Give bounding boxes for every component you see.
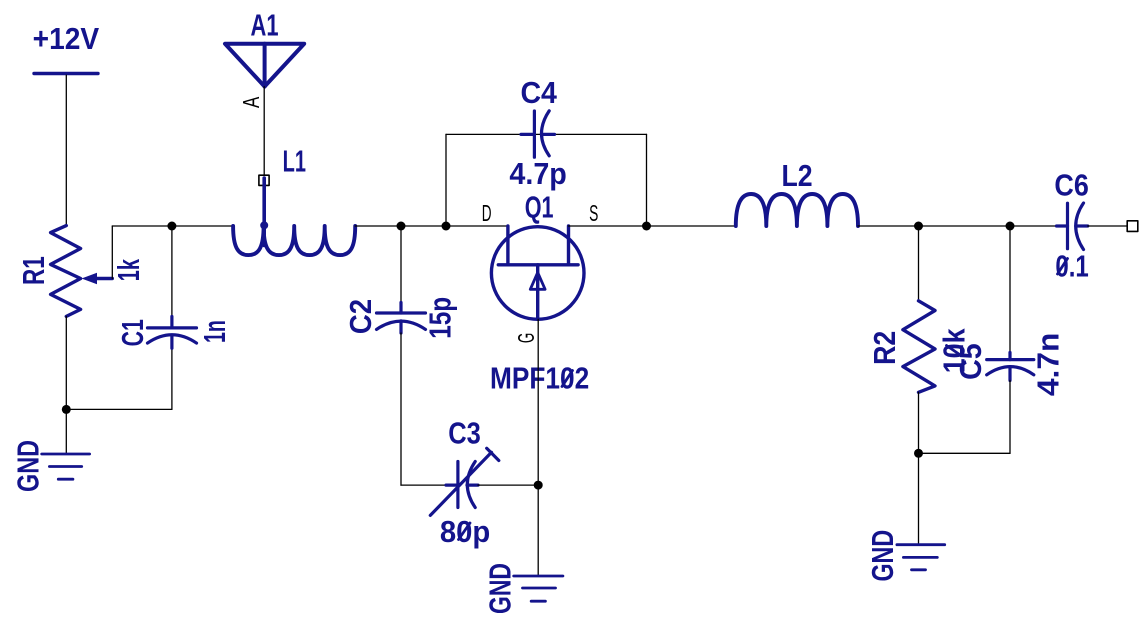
svg-text:A: A: [238, 96, 264, 108]
wire C2 lower: [400, 333, 402, 485]
resistor R1 (potentiometer body): [51, 226, 81, 317]
wire R1 wiper riser: [111, 226, 113, 279]
ground GND left: [42, 454, 90, 479]
capacitor C4: [521, 111, 555, 157]
node R1/C1/GND: [62, 405, 71, 414]
wire C6 to port: [1088, 225, 1128, 227]
svg-text:+12V: +12V: [33, 21, 100, 56]
wire rail right of Q1: [569, 225, 736, 227]
svg-text:C1: C1: [115, 319, 150, 346]
capacitor C5: [987, 353, 1034, 381]
node C3/gate/GND: [534, 481, 543, 490]
svg-text:A1: A1: [251, 8, 279, 43]
transistor Q1: [491, 226, 584, 319]
svg-text:R1: R1: [16, 256, 51, 285]
wire bottom right rail: [919, 452, 1011, 454]
svg-text:R2: R2: [867, 331, 902, 365]
svg-text:D: D: [482, 200, 492, 226]
slash of zero in 0.1: [1058, 259, 1068, 275]
node rail/C5: [1006, 222, 1015, 231]
svg-text:4.7n: 4.7n: [1031, 333, 1066, 397]
capacitor C6: [1057, 203, 1088, 250]
power +12V symbol: [34, 72, 98, 75]
wire GND mid stem: [537, 485, 539, 576]
svg-text:C4: C4: [520, 75, 557, 110]
wire C3 right: [478, 484, 538, 486]
capacitor C2: [377, 303, 426, 334]
svg-text:L2: L2: [781, 158, 812, 193]
wire rail middle: [355, 225, 508, 227]
wire to C3 left: [401, 484, 446, 486]
wire R2 bottom: [918, 392, 920, 453]
wire C5 upper: [1009, 226, 1011, 353]
node rail/C2: [397, 222, 406, 231]
wire R2 top: [918, 226, 920, 301]
wire +12V to R1: [65, 75, 67, 225]
port square output: [1127, 221, 1138, 232]
wire C4 top rail: [446, 133, 647, 135]
wire C5 lower: [1009, 381, 1011, 454]
wire C1 bottom riser: [171, 348, 173, 409]
svg-text:C6: C6: [1054, 167, 1088, 202]
wire R1 bottom: [65, 316, 67, 452]
svg-text:4.7p: 4.7p: [509, 156, 566, 191]
capacitor C1: [148, 317, 197, 349]
node R2/C5/GND: [914, 449, 923, 458]
inductor L1: [233, 226, 355, 255]
variable capacitor C3: [430, 448, 499, 515]
inductor L2: [736, 194, 858, 226]
wire antenna to port: [263, 87, 265, 178]
svg-text:S: S: [589, 200, 598, 226]
svg-text:GND: GND: [865, 530, 900, 582]
slash of zero in MPF102: [562, 371, 573, 387]
wire C4 left riser: [445, 134, 447, 226]
port square at L1 tap: [259, 175, 269, 185]
wire C2 upper: [400, 226, 402, 303]
L1 tap lead: [262, 178, 266, 246]
svg-text:MPF102: MPF102: [490, 361, 589, 396]
svg-text:C2: C2: [343, 299, 378, 334]
svg-text:C5: C5: [953, 343, 988, 380]
wire rail left: [112, 225, 233, 227]
node rail/C4 right: [642, 222, 651, 231]
node L1 tap: [260, 221, 268, 229]
svg-text:0.1: 0.1: [1055, 249, 1088, 284]
svg-text:1n: 1n: [197, 320, 232, 343]
antenna A1: [225, 44, 304, 87]
svg-text:1k: 1k: [111, 259, 146, 282]
ground GND middle: [514, 576, 563, 601]
slash of zero in 10k: [947, 346, 962, 356]
svg-text:C3: C3: [448, 416, 481, 451]
svg-text:L1: L1: [283, 143, 306, 178]
slash of zero in 80p: [459, 523, 471, 540]
wire C4 right riser: [646, 134, 648, 226]
svg-text:15p: 15p: [423, 297, 458, 339]
svg-text:Q1: Q1: [525, 190, 554, 225]
svg-text:G: G: [513, 333, 539, 343]
wire bottom left: [66, 408, 172, 410]
svg-text:GND: GND: [482, 563, 517, 614]
resistor R2: [903, 301, 935, 393]
node rail/C1: [167, 222, 176, 231]
wire C1 top riser: [171, 226, 173, 318]
svg-text:GND: GND: [11, 440, 46, 492]
node rail/C4 left: [442, 222, 451, 231]
wire gate down: [537, 319, 539, 485]
node rail/R2: [914, 222, 923, 231]
wire rail right: [858, 225, 1057, 227]
R1 wiper arrow: [93, 277, 112, 280]
ground GND right: [897, 545, 945, 570]
wire GND right stem: [918, 453, 920, 544]
